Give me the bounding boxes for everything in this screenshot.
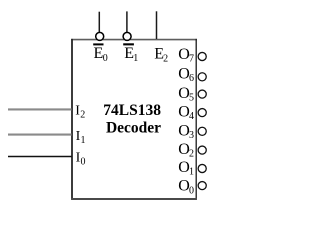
active-low bubble on E1	[123, 32, 131, 40]
pin label O0	[178, 178, 194, 197]
svg-text:1: 1	[189, 167, 194, 178]
active-low bubble output O0	[198, 182, 206, 190]
wire input I1	[8, 134, 72, 136]
wire E2 enable stub	[156, 11, 158, 39]
active-low bubble output O7	[198, 52, 206, 60]
pin label I2	[75, 104, 85, 121]
active-low bubble output O4	[198, 109, 206, 117]
pin label O1	[178, 159, 194, 178]
svg-text:2: 2	[163, 53, 168, 64]
pin label E2	[154, 46, 168, 65]
pin label O5	[178, 85, 194, 104]
svg-text:3: 3	[189, 130, 194, 141]
svg-text:4: 4	[189, 111, 194, 122]
pin label I0	[76, 151, 86, 168]
svg-text:2: 2	[80, 110, 85, 121]
wire E0 enable stub	[98, 12, 100, 33]
pin label I1	[76, 129, 86, 146]
pin label O3	[178, 123, 194, 142]
wire input I2	[8, 108, 72, 110]
active-low bubble output O1	[198, 164, 206, 172]
svg-text:1: 1	[133, 53, 138, 64]
chip body U1 74LS138 decoder	[71, 39, 197, 200]
svg-text:0: 0	[103, 53, 108, 64]
active-low bubble on E0	[96, 32, 104, 40]
pin label O6	[178, 65, 194, 84]
svg-text:Decoder: Decoder	[106, 119, 161, 136]
svg-text:0: 0	[81, 156, 86, 167]
pin label O4	[178, 104, 194, 123]
svg-text:74LS138: 74LS138	[103, 102, 161, 119]
svg-text:5: 5	[189, 92, 194, 103]
pin label O2	[178, 141, 194, 160]
active-low bubble output O6	[198, 73, 206, 81]
pin label E1 (with overbar)	[123, 43, 138, 64]
wire input I0	[8, 156, 72, 158]
active-low bubble output O3	[198, 127, 206, 135]
active-low bubble output O5	[198, 90, 206, 98]
chip title 74LS138 Decoder	[103, 102, 161, 136]
pin label O7	[178, 46, 194, 65]
wire E1 enable stub	[126, 11, 128, 32]
svg-text:0: 0	[189, 185, 194, 196]
active-low bubble output O2	[198, 146, 206, 154]
svg-text:1: 1	[81, 135, 86, 146]
pin label E0 (with overbar)	[93, 43, 108, 64]
svg-text:7: 7	[189, 53, 194, 64]
svg-text:6: 6	[189, 73, 194, 84]
